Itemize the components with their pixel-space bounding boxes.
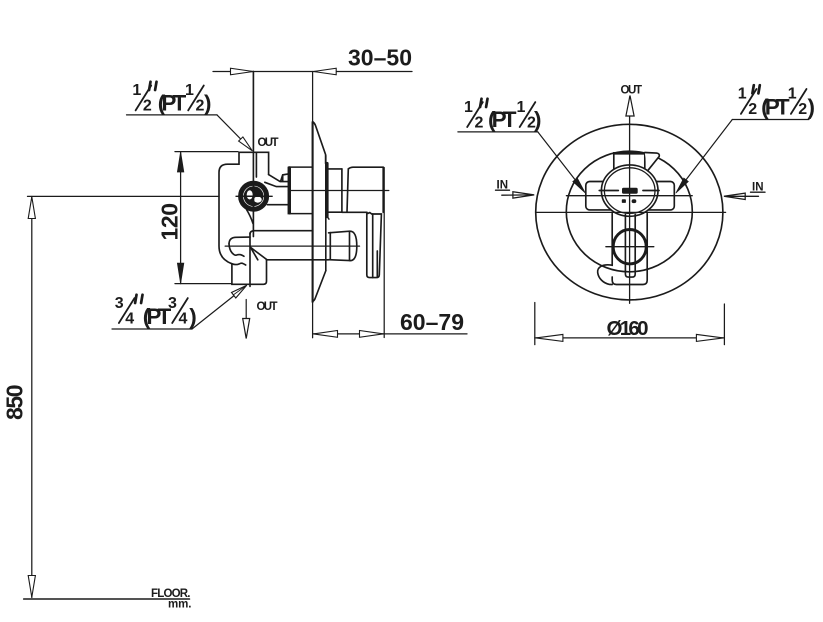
handle bell right edge [382,167,384,212]
svg-text:): ) [189,304,197,329]
svg-text:OUT: OUT [258,137,279,149]
dimension D160 line [535,337,725,339]
knob cold dot [632,199,637,203]
svg-text:850: 850 [2,385,28,421]
IN right arrow [724,193,759,199]
dimension 60-79 right extension (handle face) [383,168,385,338]
label 3/4 (PT3/4) side view [112,285,247,329]
lower wall reference line (through outlet yoke) [249,234,251,287]
outlet yoke [232,259,267,284]
escutcheon hub shadow band [325,164,328,217]
escutcheon top taper [313,122,326,164]
handle bell bottom [342,211,367,213]
dimension D160 right extension [723,304,725,345]
escutcheon dome circle [566,151,692,272]
lever outer bar [612,214,647,285]
1/2 inlet port inner dark disc [244,186,264,206]
outlet pipe top edge [250,231,312,234]
valve body upper outline [219,152,269,263]
handle grip outline [367,213,382,278]
outlet cap base line [329,233,331,260]
dimension D160 left arrow [536,334,563,341]
cartridge cone adapter [281,174,289,181]
svg-text:): ) [534,107,542,132]
label 1/2 (PT1/2) side view [127,82,253,151]
knob right tick [643,190,659,192]
dimension 30-50 right arrow [314,68,337,75]
svg-text:): ) [204,91,212,116]
leader 3/4 side [112,328,192,330]
dimension D160 left extension [534,303,536,345]
port cross horizontal [243,195,264,197]
escutcheon bottom taper [313,271,326,302]
leader front left [458,131,538,133]
svg-text:(PT: (PT [488,107,517,132]
handle top block thick band [614,152,645,155]
OUT up arrow front [626,96,634,117]
leader 1/2 side [127,114,218,116]
outlet cap outline [329,231,357,260]
label 1/2 (PT1/2) front left [458,99,586,193]
front horizontal centerline [536,211,726,213]
svg-text:30–50: 30–50 [348,45,412,71]
handle crossbar [586,182,675,210]
svg-text:120: 120 [157,203,183,241]
svg-text:OUT: OUT [621,85,643,97]
hub shadow band bottom step [327,217,329,220]
dimension D160 right arrow [696,334,723,341]
temperature ring [613,230,646,264]
cartridge funnel upper [269,175,288,182]
dimension 60-79 left extension [312,302,314,338]
label 1/2 (PT1/2) front right [676,85,815,193]
wall mount reference line (through 1/2 inlet) [252,72,254,237]
svg-text:OUT: OUT [257,301,278,313]
knob inner circle [604,168,655,214]
escutcheon wall face line [312,122,314,302]
outlet elbow inner diagonal [250,247,257,260]
inlet centerline from 850 dimension [28,195,220,197]
svg-text:60–79: 60–79 [400,309,464,335]
port disc highlight left [247,190,253,199]
handle top flag tab [645,153,660,172]
port disc highlight lower right [254,197,262,203]
outlet pocket lower wave [232,263,246,265]
svg-text:): ) [808,95,816,120]
body inner wall arc near inlet [247,210,254,224]
dimension 60-79 line [313,333,467,335]
dimension 60-79 left arrow [314,331,338,338]
dimension 850 bottom arrow [28,576,35,598]
dimension 120 top tick [175,151,238,153]
dome chord line [566,195,692,197]
lower outlet pocket curve [229,244,244,256]
handle hub barrel [329,169,342,212]
cartridge stem bottom line [268,204,288,206]
handle top block [614,153,645,171]
knob left tick [599,190,618,192]
outlet pipe bottom edge [267,259,329,261]
dimension 120 top arrow [177,152,183,172]
svg-text:(PT: (PT [158,91,187,116]
outlet elbow diagonal [250,247,266,259]
front vertical centerline [629,97,631,303]
IN left arrow [502,192,534,198]
lower outlet elbow hood [229,237,250,244]
OUT down arrow (side bottom) [243,300,250,339]
dimension 30-50 right extension [312,72,314,123]
handle bell top [348,167,383,169]
body inner top step line [255,153,257,177]
dimension 30-50 line [213,71,412,73]
outlet cap collar line [349,231,351,260]
knob hot dot [622,199,626,203]
svg-text:mm.: mm. [168,599,192,611]
floor line [24,598,190,600]
1/2 inlet port ring (side) [241,183,267,209]
svg-text:(PT: (PT [761,95,790,120]
cartridge housing [288,167,312,214]
port cross vertical [253,186,255,207]
dimension 850 vertical line [31,197,33,598]
temperature ring crossline [606,246,654,248]
lever inner bar [625,215,635,278]
leader front right [732,119,809,121]
dimension 60-79 right arrow [360,331,384,338]
handle hub rings [342,169,348,212]
dimension 120 vertical line [180,152,182,284]
knob indicator dark plate [622,188,638,194]
inlet port centerline [236,195,272,197]
svg-text:Ø160: Ø160 [607,317,649,340]
outlet centerline [225,245,359,247]
dimension 850 top arrow [28,197,35,219]
handle axis centerline [288,190,389,192]
dimension 120 bottom arrow [177,263,183,283]
cartridge funnel lower [265,182,288,186]
cartridge housing thick left edge [288,168,291,214]
IN left underline [496,189,510,191]
dimension 30-50 left arrow [231,68,254,75]
handle grip inner lines [373,214,378,278]
IN right underline [751,191,766,193]
escutcheon front rim line [325,156,327,271]
knob outer circle [601,165,658,216]
escutcheon outer circle [536,124,723,300]
lever hook tail [598,265,613,285]
dimension 120 bottom tick [175,283,232,285]
